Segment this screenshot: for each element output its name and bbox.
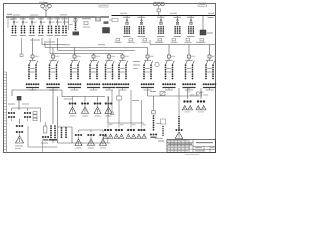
staircase rail 2 — [45, 47, 148, 49]
feeder winding W1 — [72, 97, 74, 102]
bottom 3ph winding — [102, 130, 104, 133]
bottom centre winding pair — [61, 127, 63, 129]
bottom mid 3ph winding — [118, 123, 120, 128]
feeder F4 — [40, 17, 42, 26]
lower-left rail y108 — [12, 107, 41, 109]
aux transformer column pair x51-55 — [52, 90, 54, 124]
verticals descending mid — [111, 90, 113, 110]
gray text x133 y100 — [132, 100, 139, 101]
bottom mid 3ph winding — [107, 123, 109, 128]
lower 3ph winding right — [187, 88, 189, 92]
mid feeder column x153.5 — [153, 96, 155, 110]
labels above bus B — [120, 13, 127, 14]
connector to title block — [155, 138, 163, 140]
feeder F6 — [57, 17, 59, 26]
feeder FR1 — [126, 16, 128, 25]
rail feeding W groups — [62, 96, 105, 98]
transformer T6 — [122, 54, 124, 56]
dark blob x19 — [17, 96, 22, 100]
delta x179 — [175, 132, 183, 139]
box column x44 — [44, 126, 47, 133]
bus A (left main bus) — [6, 16, 109, 18]
breaker box lower right 1 — [160, 92, 165, 96]
left revision strip — [6, 72, 8, 153]
transformer T5 — [108, 54, 110, 56]
mid box feeder — [118, 90, 120, 96]
breaker box lower right 2 — [197, 92, 202, 96]
bottom ground delta — [100, 139, 107, 146]
bottom mid delta pair — [126, 134, 130, 138]
gray text between T6 T7 — [133, 61, 140, 62]
wire x28 down — [27, 126, 29, 147]
wire loop rectangle — [57, 97, 59, 144]
rail right y96 — [147, 90, 149, 96]
bottom ground delta — [75, 139, 82, 146]
feeder winding W2 — [84, 97, 86, 102]
transformer T1 — [32, 54, 34, 56]
hatched box under bus A — [96, 17, 101, 21]
ladder boxes x33-41 — [33, 112, 37, 115]
transformer T3 — [74, 48, 76, 56]
dark hatched box x103 — [103, 28, 110, 34]
generator G2 — [153, 2, 157, 6]
label box top right-half — [198, 3, 207, 7]
feeder FR5 — [190, 16, 192, 25]
riser x21.5 — [21, 38, 23, 54]
bus A left end marks — [7, 14, 12, 15]
ground delta DW2 — [82, 107, 89, 114]
lower 3ph winding right — [200, 88, 202, 92]
right feeder with hatched box — [202, 16, 204, 31]
staircase rail 3 — [57, 38, 59, 51]
feeder F7 — [64, 17, 66, 26]
caption under title block — [185, 153, 199, 156]
bottom mid 3ph winding — [130, 123, 132, 128]
aux feeder labels — [82, 18, 91, 19]
transformer T7 — [147, 48, 149, 56]
delta pair right — [183, 106, 188, 110]
lower-left group cx19.5 — [19, 119, 21, 124]
ground delta DW1 — [69, 107, 76, 114]
transformer T9 — [188, 45, 190, 56]
winding column x179 — [178, 88, 180, 115]
lower rail left 2 — [18, 96, 20, 110]
transformer T10 — [209, 45, 211, 56]
transformer T4 — [93, 54, 95, 56]
feeder x141.5 — [141, 100, 143, 123]
bottom 3ph winding — [90, 130, 92, 133]
bus B left end box — [112, 19, 118, 22]
feeder F2 — [22, 17, 24, 26]
title block — [167, 140, 216, 153]
transformer T8 — [168, 45, 170, 56]
feeder winding W3 — [97, 97, 99, 102]
feeder FR3 — [160, 16, 162, 25]
ground delta DW3 — [94, 107, 101, 114]
stub under group cx108 — [107, 139, 109, 144]
ladder x160-166 — [161, 119, 166, 124]
bottom ground delta — [88, 139, 95, 146]
bottom rail y130 left-centre — [79, 129, 104, 131]
motor M1 — [155, 62, 159, 66]
staircase rail 1 — [41, 38, 43, 45]
feeder FR2 — [141, 16, 143, 25]
feeder F5 — [49, 17, 51, 26]
bottom rail mid — [107, 96, 109, 123]
feeder F3 — [31, 17, 33, 26]
mid small symbols row — [116, 39, 120, 41]
feeder F1 — [13, 17, 15, 26]
bottom mid delta pair — [114, 134, 118, 138]
drop line to bottom border — [42, 141, 44, 153]
bottom mid 3ph winding — [141, 123, 143, 128]
feeder F8 riser — [68, 17, 70, 30]
bus B (right main bus) — [112, 15, 216, 17]
generator G1 — [41, 4, 45, 8]
label box top left-half — [99, 4, 108, 8]
winding group B cx27.5 — [24, 112, 26, 114]
riser into T1 — [32, 38, 34, 55]
winding group A cx11.5 — [8, 112, 10, 114]
gray text lower-left — [8, 104, 15, 105]
feeder winding W4 — [108, 97, 110, 102]
bottom mid delta pair — [103, 134, 107, 138]
unit transformer with dark base — [75, 17, 77, 21]
lower rail left — [12, 89, 62, 91]
delta pair right — [196, 106, 201, 110]
bottom 3ph winding — [78, 130, 80, 133]
bottom mid delta pair — [137, 134, 141, 138]
staircase rail 4 — [49, 38, 51, 54]
labels above bus A — [13, 15, 20, 16]
long feeder x131 — [130, 90, 132, 123]
feeder FR4 — [177, 16, 179, 25]
ground delta D1 — [16, 136, 24, 143]
dark bar right of bus A — [104, 21, 109, 24]
border frame — [4, 4, 216, 153]
staircase rail right — [149, 40, 151, 45]
ground delta DW4 — [105, 107, 112, 114]
transformer T2 — [52, 48, 54, 56]
